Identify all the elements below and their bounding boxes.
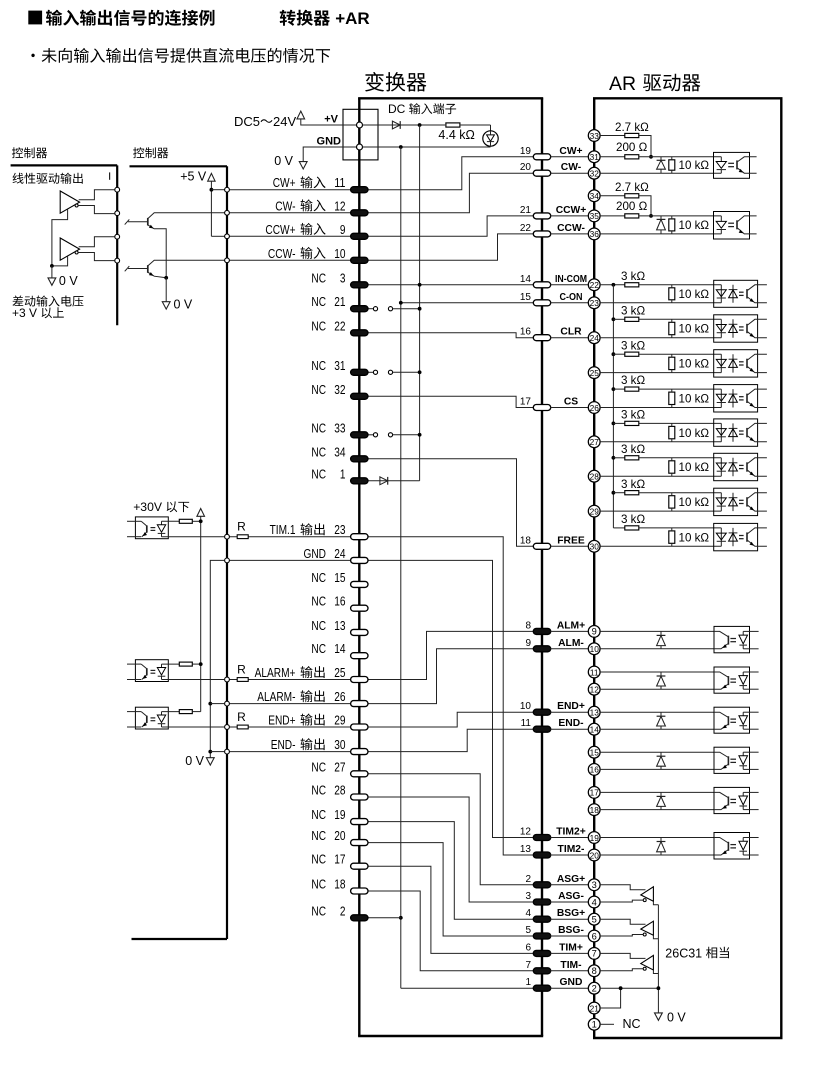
svg-text:BSG-: BSG- (558, 925, 584, 936)
svg-text:29: 29 (590, 506, 600, 516)
svg-text:7: 7 (525, 960, 531, 971)
svg-text:23: 23 (334, 522, 345, 537)
svg-text:6: 6 (525, 942, 531, 953)
svg-text:8: 8 (592, 966, 597, 976)
svg-text:NC: NC (311, 852, 326, 867)
svg-text:24: 24 (334, 546, 345, 561)
svg-text:R: R (237, 663, 246, 677)
svg-text:200: 200 (616, 141, 635, 154)
svg-text:18: 18 (520, 535, 532, 546)
svg-text:NC: NC (311, 641, 326, 656)
svg-text:Ω: Ω (639, 141, 648, 154)
svg-text:1: 1 (592, 1020, 597, 1030)
svg-text:10 k: 10 k (679, 323, 701, 336)
svg-text:15: 15 (334, 570, 345, 585)
svg-text:IN-COM: IN-COM (555, 274, 587, 285)
svg-text:2: 2 (525, 874, 531, 885)
svg-text:DC5: DC5 (234, 114, 260, 129)
svg-text:12: 12 (334, 198, 345, 213)
svg-text:Ω: Ω (640, 121, 649, 134)
svg-text:36: 36 (590, 229, 600, 239)
svg-text:3: 3 (525, 891, 531, 902)
svg-text:CCW-: CCW- (557, 223, 585, 234)
svg-text:2.7 k: 2.7 k (615, 181, 640, 194)
svg-text:Ω: Ω (700, 358, 709, 371)
svg-text:TIM-: TIM- (560, 960, 582, 971)
svg-text:FREE: FREE (557, 535, 585, 546)
svg-text:3 k: 3 k (621, 304, 637, 317)
svg-text:33: 33 (334, 420, 345, 435)
svg-text:3 k: 3 k (621, 478, 637, 491)
svg-text:14: 14 (334, 641, 345, 656)
svg-text:TIM.1: TIM.1 (270, 522, 296, 537)
svg-text:NC: NC (311, 594, 326, 609)
svg-text:Ω: Ω (637, 374, 646, 387)
svg-text:14: 14 (520, 274, 532, 285)
svg-text:27: 27 (334, 759, 345, 774)
svg-text:9: 9 (592, 627, 597, 637)
svg-text:NC: NC (311, 903, 326, 918)
svg-text:27: 27 (590, 437, 600, 447)
svg-text:GND: GND (304, 546, 327, 561)
svg-text:DC: DC (388, 102, 406, 116)
svg-text:CW-: CW- (275, 198, 295, 213)
svg-text:17: 17 (590, 788, 600, 798)
svg-text:33: 33 (590, 131, 600, 141)
svg-text:19: 19 (520, 146, 532, 157)
svg-text:0 V: 0 V (174, 298, 193, 312)
svg-text:NC: NC (311, 618, 326, 633)
svg-text:13: 13 (334, 618, 345, 633)
svg-text:ALARM-: ALARM- (257, 689, 295, 704)
svg-text:12: 12 (590, 685, 600, 695)
svg-text:R: R (237, 520, 246, 534)
svg-text:Ω: Ω (637, 478, 646, 491)
svg-text:NC: NC (311, 444, 326, 459)
svg-text:28: 28 (590, 472, 600, 482)
svg-text:3 k: 3 k (621, 409, 637, 422)
svg-text:NC: NC (311, 759, 326, 774)
svg-text:16: 16 (334, 594, 345, 609)
svg-text:4: 4 (525, 908, 531, 919)
svg-text:19: 19 (334, 807, 345, 822)
svg-text:CS: CS (564, 397, 578, 408)
svg-text:12: 12 (520, 827, 532, 838)
svg-text:1: 1 (525, 977, 531, 988)
svg-text:Ω: Ω (637, 443, 646, 456)
svg-text:+AR: +AR (335, 9, 369, 28)
svg-text:26: 26 (334, 689, 345, 704)
svg-text:GND: GND (317, 136, 342, 148)
svg-text:4.4 k: 4.4 k (438, 128, 466, 142)
svg-text:10 k: 10 k (679, 461, 701, 474)
svg-text:CCW-: CCW- (268, 246, 296, 261)
svg-text:3 k: 3 k (621, 443, 637, 456)
svg-text:22: 22 (334, 318, 345, 333)
svg-text:20: 20 (590, 850, 600, 860)
svg-text:200: 200 (616, 200, 635, 213)
svg-text:25: 25 (334, 665, 345, 680)
svg-text:NC: NC (311, 420, 326, 435)
svg-text:3: 3 (592, 880, 597, 890)
svg-text:32: 32 (334, 382, 345, 397)
svg-text:23: 23 (590, 298, 600, 308)
svg-text:11: 11 (590, 667, 599, 677)
svg-text:C-ON: C-ON (560, 292, 583, 303)
svg-text:CCW+: CCW+ (556, 205, 587, 216)
svg-text:16: 16 (520, 327, 532, 338)
svg-text:0 V: 0 V (667, 1011, 686, 1025)
svg-text:26C31: 26C31 (665, 946, 702, 960)
svg-text:CW-: CW- (561, 162, 582, 173)
svg-text:ASG-: ASG- (558, 891, 584, 902)
svg-text:20: 20 (334, 828, 345, 843)
svg-text:10 k: 10 k (679, 496, 701, 509)
svg-text:9: 9 (525, 638, 531, 649)
svg-text:5: 5 (592, 915, 597, 925)
svg-text:29: 29 (334, 713, 345, 728)
svg-text:10: 10 (520, 701, 532, 712)
svg-text:30: 30 (590, 542, 600, 552)
svg-text:+30V: +30V (133, 500, 163, 514)
svg-text:Ω: Ω (637, 304, 646, 317)
svg-text:18: 18 (590, 805, 600, 815)
svg-text:7: 7 (592, 949, 597, 959)
svg-text:NC: NC (311, 318, 326, 333)
svg-text:+3 V: +3 V (12, 306, 37, 320)
svg-text:9: 9 (340, 222, 346, 237)
svg-text:CLR: CLR (560, 327, 582, 338)
svg-text:0 V: 0 V (185, 754, 204, 768)
svg-text:19: 19 (590, 833, 600, 843)
svg-text:+V: +V (324, 114, 338, 126)
svg-text:26: 26 (590, 403, 600, 413)
svg-text:25: 25 (590, 368, 600, 378)
svg-text:10 k: 10 k (679, 159, 701, 172)
svg-text:+5 V: +5 V (180, 170, 207, 184)
svg-text:Ω: Ω (637, 513, 646, 526)
svg-text:CW+: CW+ (559, 146, 582, 157)
svg-text:2.7 k: 2.7 k (615, 121, 640, 134)
svg-text:10 k: 10 k (679, 358, 701, 371)
svg-text:17: 17 (520, 397, 532, 408)
svg-text:Ω: Ω (640, 181, 649, 194)
svg-text:NC: NC (311, 466, 326, 481)
svg-text:Ω: Ω (700, 288, 709, 301)
svg-text:NC: NC (311, 270, 326, 285)
svg-text:Ω: Ω (700, 461, 709, 474)
svg-text:CW+: CW+ (273, 175, 296, 190)
svg-text:35: 35 (590, 211, 600, 221)
svg-text:22: 22 (590, 280, 600, 290)
svg-text:13: 13 (590, 708, 600, 718)
svg-text:34: 34 (334, 444, 345, 459)
svg-text:NC: NC (311, 294, 326, 309)
svg-text:TIM2+: TIM2+ (556, 827, 585, 838)
svg-text:TIM+: TIM+ (559, 942, 583, 953)
svg-text:ASG+: ASG+ (557, 874, 585, 885)
svg-text:3 k: 3 k (621, 339, 637, 352)
svg-text:10 k: 10 k (679, 219, 701, 232)
svg-text:ALM+: ALM+ (557, 620, 585, 631)
svg-text:11: 11 (521, 718, 532, 729)
svg-text:11: 11 (334, 175, 345, 190)
svg-text:20: 20 (520, 162, 532, 173)
svg-text:21: 21 (520, 205, 532, 216)
svg-text:14: 14 (590, 725, 600, 735)
svg-text:NC: NC (311, 807, 326, 822)
svg-text:10 k: 10 k (679, 288, 701, 301)
svg-text:BSG+: BSG+ (557, 908, 585, 919)
svg-text:10 k: 10 k (679, 393, 701, 406)
svg-text:AR: AR (609, 73, 636, 95)
svg-text:24V: 24V (273, 114, 296, 129)
svg-text:21: 21 (334, 294, 345, 309)
svg-text:32: 32 (590, 169, 600, 179)
svg-text:4: 4 (592, 897, 597, 907)
svg-text:NC: NC (311, 783, 326, 798)
svg-text:3 k: 3 k (621, 270, 637, 283)
svg-text:2: 2 (592, 984, 597, 994)
svg-text:0 V: 0 V (59, 274, 78, 288)
svg-text:Ω: Ω (700, 393, 709, 406)
svg-text:END-: END- (271, 737, 296, 752)
svg-text:30: 30 (334, 737, 345, 752)
svg-text:10: 10 (334, 246, 345, 261)
svg-text:31: 31 (590, 152, 600, 162)
svg-text:10: 10 (590, 644, 600, 654)
svg-text:10 k: 10 k (679, 531, 701, 544)
svg-text:Ω: Ω (700, 496, 709, 509)
svg-text:22: 22 (520, 223, 532, 234)
svg-text:1: 1 (340, 466, 346, 481)
svg-text:5: 5 (525, 925, 531, 936)
svg-text:NC: NC (311, 877, 326, 892)
svg-text:21: 21 (590, 1003, 600, 1013)
svg-text:ALM-: ALM- (558, 638, 584, 649)
svg-text:24: 24 (590, 333, 600, 343)
svg-text:Ω: Ω (466, 128, 475, 142)
svg-text:Ω: Ω (700, 531, 709, 544)
svg-text:28: 28 (334, 783, 345, 798)
svg-text:Ω: Ω (637, 270, 646, 283)
svg-text:Ω: Ω (637, 409, 646, 422)
svg-text:18: 18 (334, 877, 345, 892)
svg-text:END-: END- (558, 718, 584, 729)
svg-text:NC: NC (311, 570, 326, 585)
svg-text:NC: NC (311, 382, 326, 397)
svg-text:31: 31 (334, 358, 345, 373)
svg-text:13: 13 (520, 844, 532, 855)
svg-text:8: 8 (525, 620, 531, 631)
svg-text:17: 17 (334, 852, 345, 867)
svg-text:Ω: Ω (637, 339, 646, 352)
svg-text:Ω: Ω (700, 219, 709, 232)
svg-text:6: 6 (592, 931, 597, 941)
svg-text:CCW+: CCW+ (265, 222, 295, 237)
svg-text:3 k: 3 k (621, 374, 637, 387)
svg-text:Ω: Ω (700, 323, 709, 336)
svg-text:3: 3 (340, 270, 346, 285)
svg-text:NC: NC (311, 358, 326, 373)
svg-text:TIM2-: TIM2- (558, 844, 585, 855)
svg-text:10 k: 10 k (679, 427, 701, 440)
svg-text:NC: NC (623, 1017, 641, 1031)
svg-text:R: R (237, 710, 246, 724)
svg-text:Ω: Ω (700, 427, 709, 440)
svg-text:Ω: Ω (700, 159, 709, 172)
svg-text:16: 16 (590, 765, 600, 775)
svg-text:15: 15 (590, 748, 600, 758)
svg-text:2: 2 (340, 903, 346, 918)
svg-text:NC: NC (311, 828, 326, 843)
svg-text:END+: END+ (557, 701, 585, 712)
svg-text:END+: END+ (268, 713, 295, 728)
svg-text:Ω: Ω (639, 200, 648, 213)
svg-text:0 V: 0 V (274, 154, 293, 168)
svg-text:15: 15 (520, 292, 532, 303)
svg-text:3 k: 3 k (621, 513, 637, 526)
svg-text:34: 34 (590, 191, 600, 201)
svg-text:GND: GND (560, 977, 583, 988)
svg-text:ALARM+: ALARM+ (255, 665, 296, 680)
